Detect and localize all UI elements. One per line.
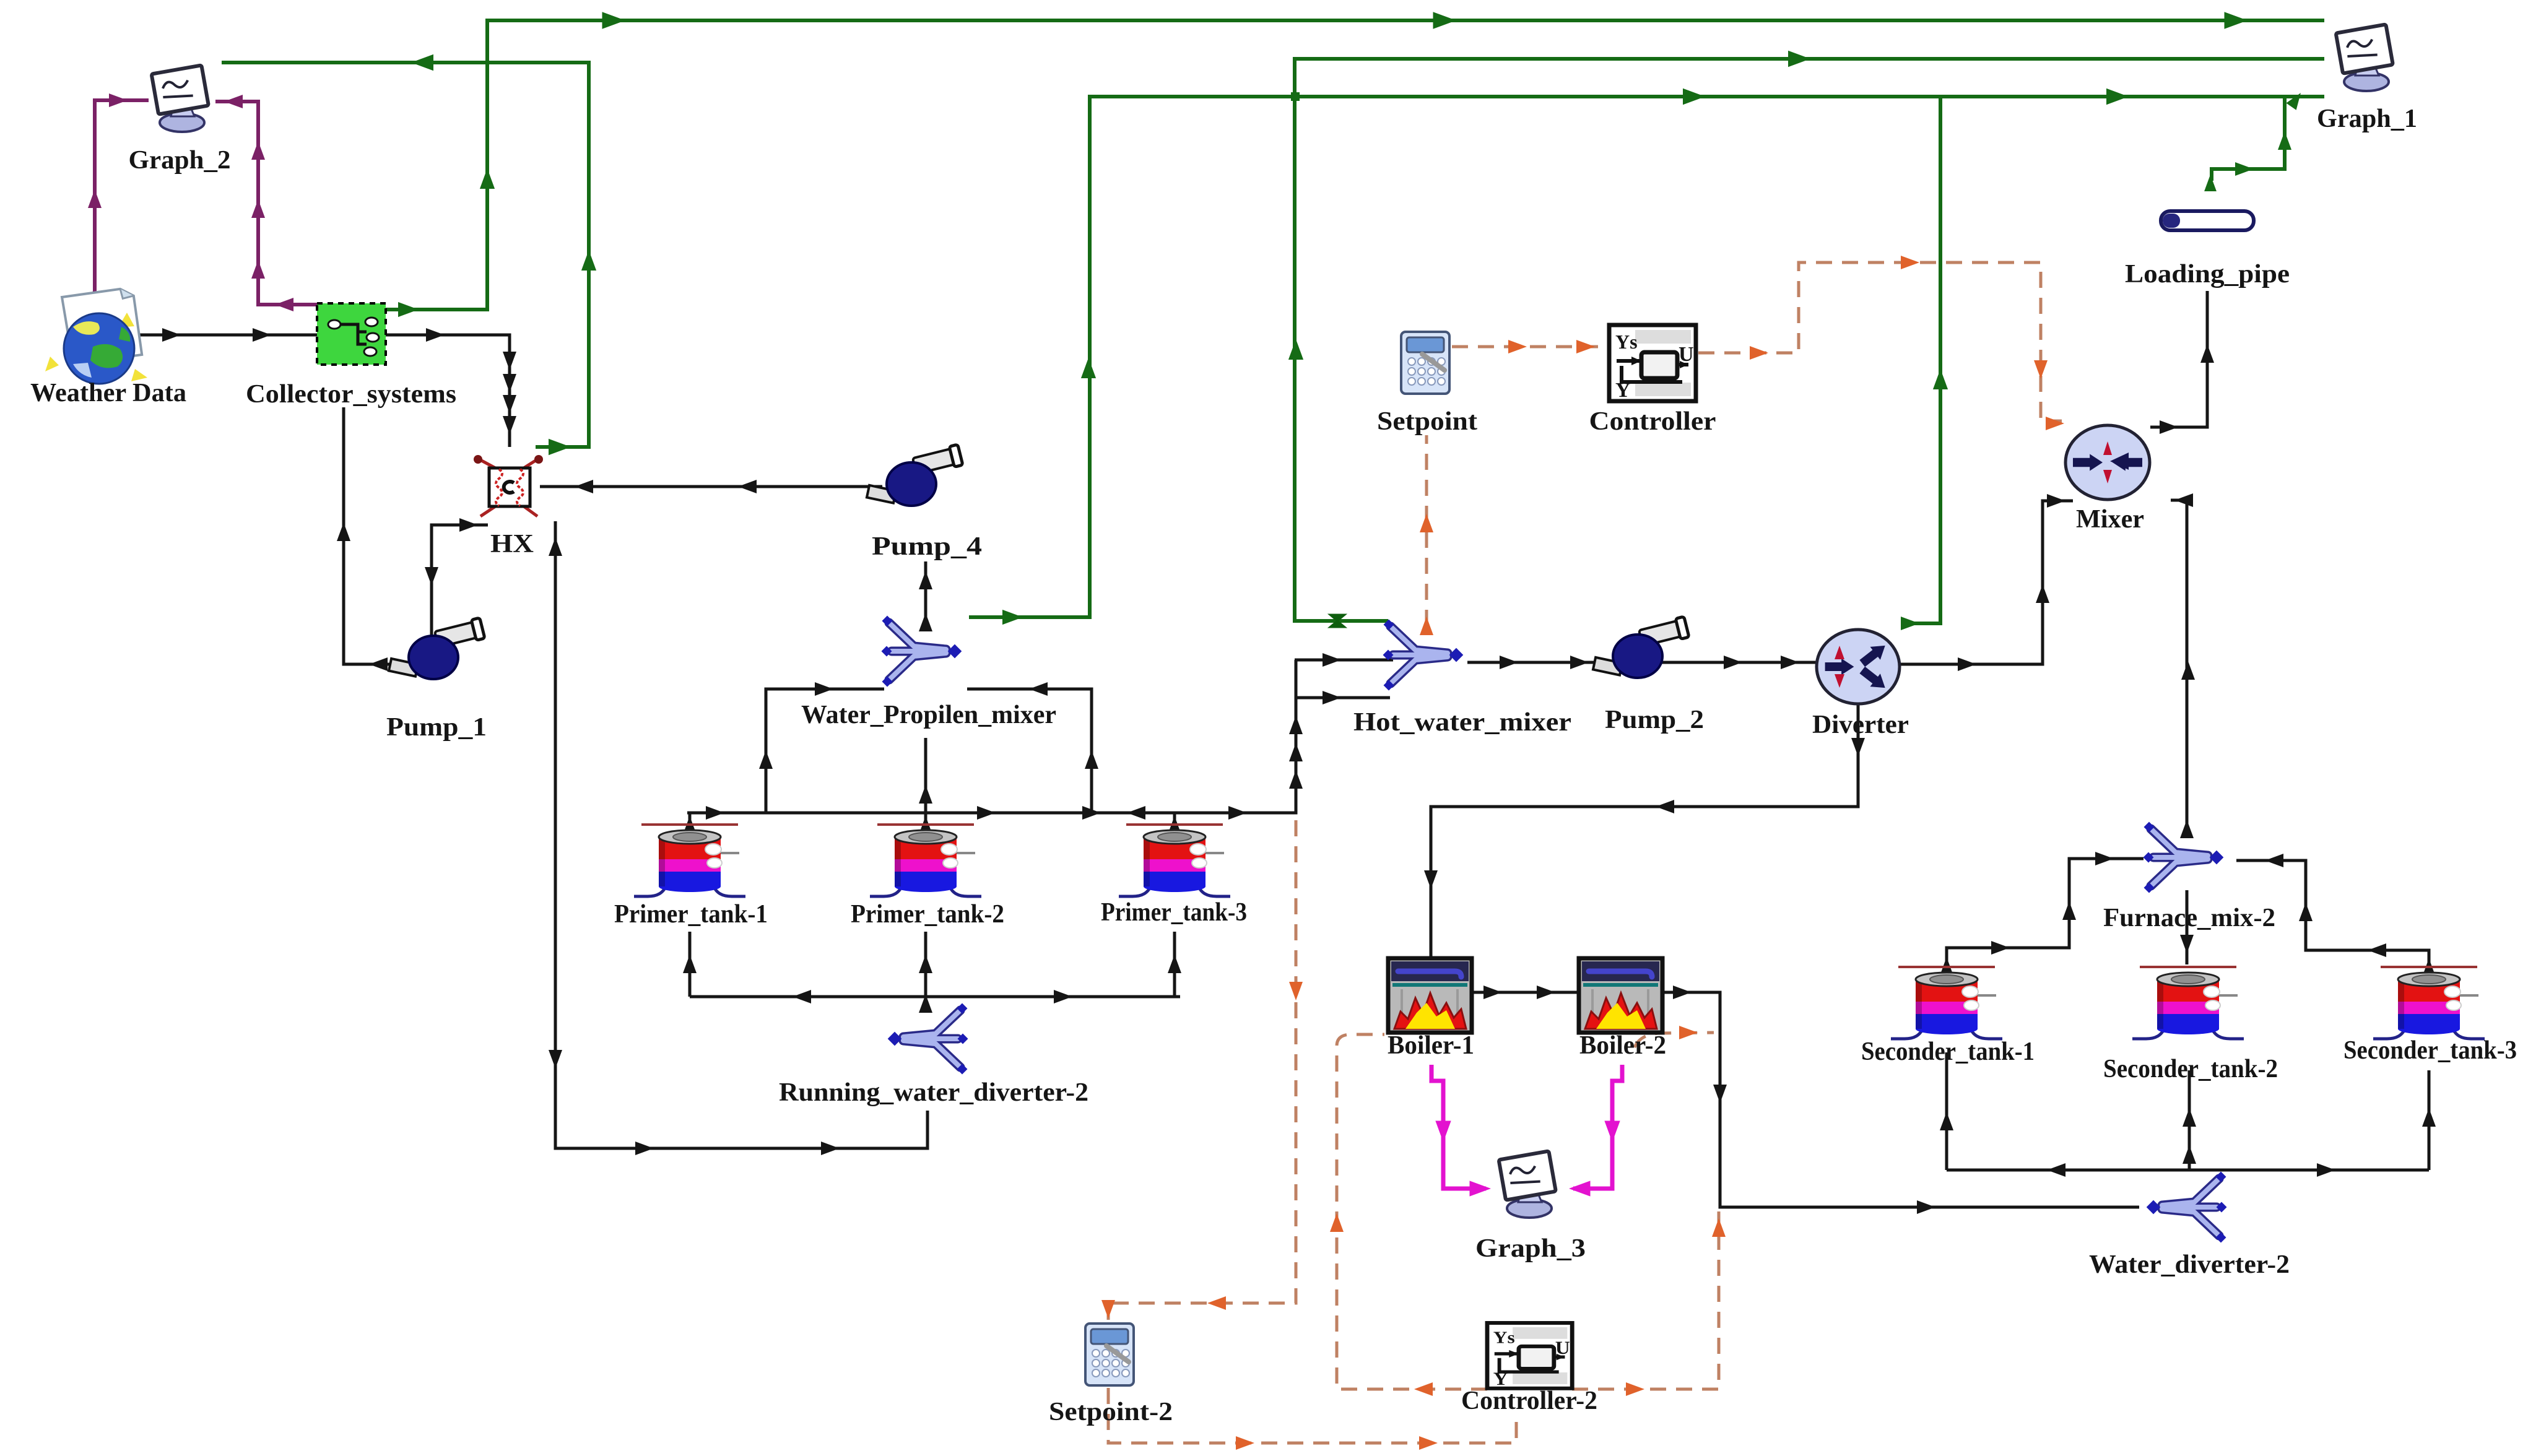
- graph Graph_3: [1499, 1151, 1556, 1218]
- svg-text:Water_Propilen_mixer: Water_Propilen_mixer: [801, 701, 1056, 729]
- wire Hot_water_mixer to Pump_2 to Diverter: [1467, 661, 1820, 664]
- wire Diverter branch up to Graph_1 line: [1901, 97, 1940, 623]
- wire Water_Propilen_mixer to Pump_4: [924, 561, 927, 619]
- tank Seconder_tank-2: [2132, 967, 2244, 1039]
- wire riser into Hot_water_mixer lower port: [1295, 696, 1390, 700]
- svg-text:Weather Data: Weather Data: [30, 379, 186, 407]
- green junction dot: [1291, 92, 1300, 101]
- wire stub Running_water_diverter-2 to bottom bus: [924, 997, 927, 1010]
- wire stub Primer_tank-1 top: [688, 813, 692, 826]
- wire stub Primer_tank-3 bottom: [1173, 932, 1176, 997]
- tee-piece Water_Propilen_mixer: [882, 616, 962, 687]
- boiler Boiler-2: [1579, 958, 1662, 1033]
- wire stub Seconder_tank-2 bottom: [2188, 1070, 2191, 1170]
- svg-text:Pump_1: Pump_1: [386, 713, 487, 742]
- wire Furnace_mix-2 to Mixer: [2171, 500, 2187, 824]
- wire Mixer to Loading_pipe: [2150, 291, 2207, 427]
- wire Seconder_tank-3 to Furnace_mix-2: [2236, 860, 2429, 966]
- flow diverter Diverter: [1817, 630, 1900, 704]
- wire HX to Pump_1: [432, 525, 488, 638]
- wire Boiler-2 to Graph_3: [1573, 1065, 1622, 1189]
- wire HX to Graph_2 (y=101): [222, 63, 589, 447]
- svg-text:Controller-2: Controller-2: [1461, 1387, 1597, 1415]
- svg-text:Diverter: Diverter: [1812, 711, 1909, 739]
- weather data reader Weather Data: [45, 287, 147, 384]
- wire stub Primer_tank-2 bottom: [924, 932, 927, 997]
- tee-piece Running_water_diverter-2: [888, 1003, 968, 1075]
- wire Seconder_tank-1 to Furnace_mix-2: [1947, 859, 2144, 966]
- graph Graph_2: [152, 65, 209, 132]
- svg-text:Pump_4: Pump_4: [872, 532, 982, 561]
- svg-text:Setpoint: Setpoint: [1377, 407, 1477, 436]
- wire stub Primer_tank-1 bottom: [688, 932, 692, 997]
- wire Boiler-2 to Water_diverter-2: [1664, 992, 2139, 1207]
- controller block Controller-2: [1487, 1323, 1572, 1389]
- wire secondary tank bottom bus: [1947, 1169, 2429, 1172]
- calculator Setpoint: [1401, 332, 1449, 394]
- svg-text:Graph_3: Graph_3: [1475, 1234, 1586, 1263]
- wire riser into Hot_water_mixer middle port: [1295, 659, 1393, 662]
- pipe Loading_pipe: [2161, 211, 2254, 230]
- svg-text:Running_water_diverter-2: Running_water_diverter-2: [779, 1078, 1088, 1107]
- svg-text:Mixer: Mixer: [2076, 505, 2144, 534]
- svg-text:Loading_pipe: Loading_pipe: [2125, 260, 2290, 288]
- wire stub bus to Water_Propilen_mixer: [924, 738, 927, 813]
- pump Pump_4: [867, 444, 963, 506]
- tank Primer_tank-1: [634, 825, 745, 896]
- svg-text:Hot_water_mixer: Hot_water_mixer: [1353, 708, 1571, 737]
- svg-text:HX: HX: [490, 530, 534, 558]
- tee-piece Furnace_mix-2: [2144, 822, 2224, 893]
- svg-text:Boiler-2: Boiler-2: [1579, 1031, 1666, 1060]
- wire stub Primer_tank-2 top: [924, 813, 927, 826]
- wire Pump_4 to HX: [540, 485, 882, 488]
- svg-text:Graph_2: Graph_2: [129, 146, 231, 175]
- wire Hot_water_mixer to Graph_1 (y=95): [1295, 59, 2324, 621]
- control wire Controller to Mixer: [1698, 262, 2062, 421]
- control wire tank bus to Setpoint-2: [1108, 820, 1296, 1320]
- wire stub Seconder_tank-3 bottom: [2428, 1070, 2431, 1170]
- control wire Hot_water_mixer to Setpoint: [1425, 435, 1428, 626]
- wire Collector_systems to HX (down): [386, 335, 510, 447]
- graph Graph_1: [2336, 24, 2393, 91]
- wire Collector_systems to Graph_2: [215, 102, 317, 305]
- control wire Controller-2 right riser: [1572, 1211, 1719, 1389]
- svg-text:Primer_tank-3: Primer_tank-3: [1101, 898, 1247, 927]
- svg-text:Primer_tank-1: Primer_tank-1: [614, 900, 768, 929]
- wire Pump_1 to Collector_systems: [344, 407, 404, 664]
- wire primary tank bottom bus: [690, 995, 1180, 999]
- wire HX return riser to Running_water_diverter-2: [555, 521, 927, 1148]
- svg-text:Water_diverter-2: Water_diverter-2: [2089, 1250, 2290, 1279]
- tank Seconder_tank-1: [1891, 967, 2002, 1039]
- wire Loading_pipe to Graph_1 line: [2212, 97, 2285, 181]
- boiler Boiler-1: [1388, 958, 1472, 1033]
- control wire Setpoint to Controller: [1452, 345, 1607, 349]
- svg-text:Setpoint-2: Setpoint-2: [1049, 1398, 1173, 1426]
- wire Weather Data to Collector_systems: [137, 334, 317, 337]
- svg-text:Furnace_mix-2: Furnace_mix-2: [2103, 904, 2275, 932]
- svg-text:Boiler-1: Boiler-1: [1388, 1031, 1474, 1060]
- wire Diverter to Mixer: [1901, 501, 2073, 664]
- wire stub Primer_tank-3 top: [1173, 813, 1176, 826]
- collector array Collector_systems: [317, 303, 386, 365]
- svg-text:Graph_1: Graph_1: [2317, 105, 2417, 133]
- svg-text:Seconder_tank-1: Seconder_tank-1: [1861, 1038, 2035, 1066]
- controller block Controller: [1609, 325, 1696, 402]
- wire Boiler-1 to Boiler-2: [1472, 991, 1578, 994]
- tank Primer_tank-3: [1119, 825, 1230, 896]
- wire stub Seconder_tank-1 bottom: [1945, 1052, 1948, 1170]
- tee-piece Water_diverter-2: [2147, 1172, 2227, 1243]
- green bowtie marker on Hot_water_mixer inlet: [1330, 615, 1345, 627]
- tank Seconder_tank-3: [2373, 967, 2485, 1039]
- svg-text:Primer_tank-2: Primer_tank-2: [851, 900, 1004, 929]
- wire collector_systems to Graph_1 (top line y=33): [386, 20, 2324, 310]
- pump Pump_1: [389, 618, 485, 679]
- tee-piece Hot_water_mixer: [1383, 620, 1464, 691]
- flow mixer Mixer: [2065, 425, 2150, 500]
- control wire Boiler-2 stub: [1635, 1033, 1714, 1047]
- pump Pump_2: [1593, 617, 1689, 678]
- calculator Setpoint-2: [1085, 1324, 1134, 1385]
- wire Weather Data to Graph_2: [95, 100, 149, 303]
- wire Diverter to Boiler-1: [1431, 704, 1858, 958]
- svg-text:Controller: Controller: [1589, 407, 1716, 436]
- wire Furnace_mix-2 to Seconder_tank-2: [2186, 890, 2189, 964]
- wire Boiler-1 to Graph_3: [1431, 1065, 1486, 1189]
- wire Water_Propilen_mixer to Graph_1 (y=156): [969, 97, 2324, 617]
- tank Primer_tank-2: [870, 825, 981, 896]
- wire tank bus to Water_Propilen_mixer right loop: [967, 689, 1092, 813]
- svg-text:Collector_systems: Collector_systems: [246, 380, 456, 409]
- wire primary tank top bus: [687, 660, 1296, 813]
- control wire Setpoint-2 to Controller-2: [1108, 1388, 1516, 1443]
- svg-text:Pump_2: Pump_2: [1605, 706, 1704, 734]
- heat exchanger HX: [474, 455, 543, 516]
- svg-text:Seconder_tank-3: Seconder_tank-3: [2343, 1036, 2517, 1065]
- wire tank bus to Water_Propilen_mixer left loop: [766, 689, 884, 813]
- svg-text:Seconder_tank-2: Seconder_tank-2: [2103, 1055, 2278, 1083]
- control wire Controller-2 to Boiler-1: [1337, 1034, 1487, 1389]
